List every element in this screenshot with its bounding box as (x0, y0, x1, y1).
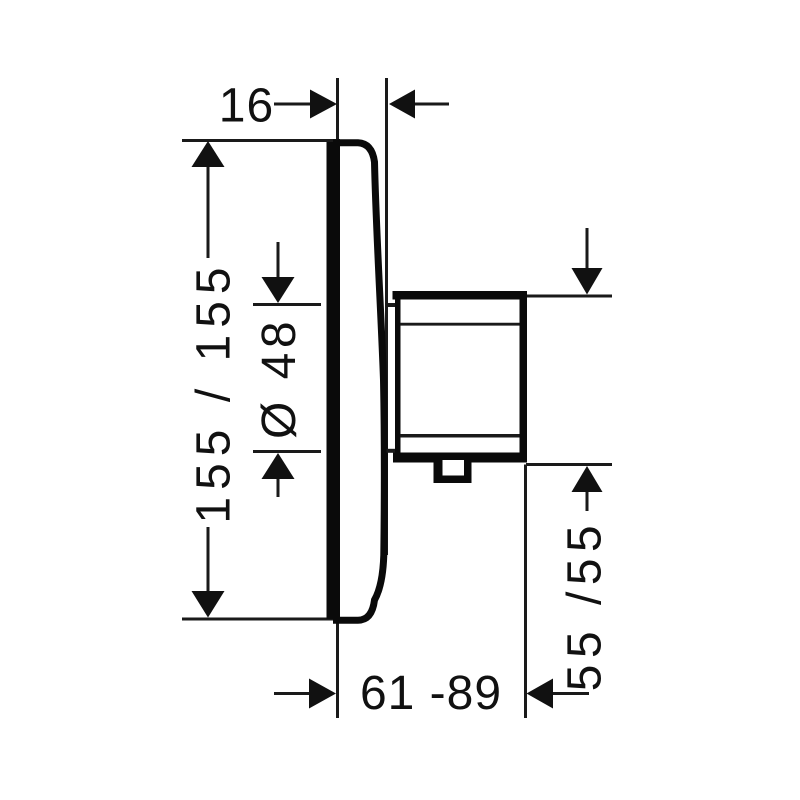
svg-text:55 /55: 55 /55 (559, 519, 612, 691)
svg-text:155 / 155: 155 / 155 (188, 260, 241, 523)
svg-text:16: 16 (219, 80, 274, 133)
svg-text:61 -89: 61 -89 (360, 667, 502, 720)
svg-text:Ø 48: Ø 48 (253, 317, 306, 439)
